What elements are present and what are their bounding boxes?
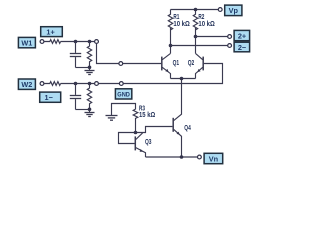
wire R2 to Q2 collector [195, 28, 197, 54]
svg-text:2+: 2+ [238, 32, 246, 41]
wire W2 node to Q2 base loop [123, 64, 222, 84]
transistor Q2 [188, 53, 204, 78]
resistor R3 [133, 109, 138, 132]
connector circle Vp [218, 8, 222, 12]
capacitor C2 [70, 84, 90, 110]
transistor Q1 [162, 53, 179, 78]
transistor Q4 [173, 79, 191, 158]
connector circle W2 node [95, 82, 99, 86]
1+ scope channel label box [41, 27, 63, 37]
ground net wire (R3 top to ground symbol) [112, 104, 136, 116]
svg-text:10 kΩ: 10 kΩ [198, 19, 215, 28]
wire W1 node to Q1 base [97, 43, 119, 63]
connector circle 2- [228, 44, 232, 48]
wire W1 node [61, 41, 95, 43]
junction ground (row1) [88, 66, 92, 70]
wire Q3 collector node to Q4 base [136, 127, 173, 133]
junction capacitor C1 top [74, 40, 78, 44]
1- scope channel label box [40, 92, 61, 102]
wire 2- [171, 45, 228, 47]
ground (row1) [85, 68, 95, 75]
wire Q3 base loop [119, 133, 136, 144]
Vp label box [225, 5, 242, 16]
series resistor (W1 input) [44, 40, 61, 44]
junction shunt resistor top (row1) [88, 40, 92, 44]
connector circle Vn [198, 155, 202, 159]
emitter rail Q1-Q2 [171, 78, 196, 80]
2- label box [234, 42, 250, 52]
svg-text:Q2: Q2 [188, 58, 195, 67]
wire to Q1 base [123, 63, 162, 65]
shunt resistor (row2) [87, 84, 91, 110]
series resistor (W2 input) [44, 82, 61, 86]
resistor R2 [193, 10, 197, 30]
junction 2+ tap [194, 35, 198, 39]
wire 2+ [196, 36, 228, 38]
junction 2- tap [169, 44, 173, 48]
junction shunt resistor top (row2) [88, 82, 92, 86]
svg-text:Q3: Q3 [145, 137, 152, 146]
W2 label box [18, 79, 35, 89]
svg-text:Vn: Vn [209, 154, 218, 163]
svg-text:1+: 1+ [46, 27, 54, 36]
ground (row2) [85, 110, 95, 117]
connector circle W1 node [95, 40, 99, 44]
svg-text:GND: GND [117, 92, 130, 99]
junction Q3 collector node [134, 131, 138, 135]
svg-text:10 kΩ: 10 kΩ [173, 19, 190, 28]
junction R2 top [194, 8, 198, 12]
junction emitters node [180, 77, 184, 81]
svg-text:Q4: Q4 [184, 123, 191, 132]
ground (GND net) [106, 116, 118, 121]
Vp supply rail [171, 9, 219, 11]
Vn supply rail [146, 156, 198, 158]
Vn label box [204, 153, 223, 163]
svg-text:W1: W1 [21, 38, 32, 47]
svg-text:15 kΩ: 15 kΩ [139, 110, 155, 119]
transistor Q3 [135, 133, 151, 157]
junction ground (row2) [88, 108, 92, 112]
svg-text:1−: 1− [45, 93, 53, 102]
W1 label box [18, 37, 35, 47]
junction Q4 emitter [180, 155, 184, 159]
W2 terminal circle [40, 82, 44, 86]
svg-text:Vp: Vp [229, 6, 239, 15]
wire R1 to Q1 collector [170, 28, 172, 54]
capacitor C1 [70, 42, 90, 68]
connector circle 2+ [228, 35, 232, 39]
svg-text:2−: 2− [238, 43, 246, 52]
wire W2 node [61, 83, 95, 85]
svg-text:Q1: Q1 [173, 58, 180, 67]
2+ label box [234, 30, 250, 40]
shunt resistor (row1) [87, 42, 91, 68]
junction capacitor C2 top [74, 82, 78, 86]
GND label box [115, 89, 131, 99]
resistor R1 [168, 10, 172, 30]
W1 terminal circle [40, 40, 44, 44]
connector circle GND tap [119, 82, 123, 86]
svg-text:W2: W2 [21, 80, 32, 89]
connector circle Q1 base wire [119, 62, 123, 66]
wire W2 node to GND tap [98, 83, 119, 85]
